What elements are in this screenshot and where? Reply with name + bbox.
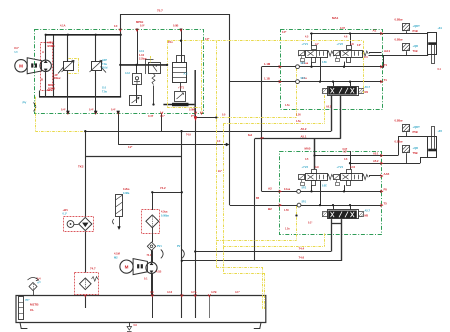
svg-text:74.6: 74.6 [299, 256, 305, 260]
svg-text:A5.1: A5.1 [373, 151, 379, 155]
svg-text:4.1A: 4.1A [60, 24, 66, 28]
svg-text:74.2: 74.2 [160, 186, 166, 190]
svg-text:0.0*: 0.0* [205, 38, 209, 41]
svg-text:B: B [41, 78, 43, 82]
svg-text:M1TB: M1TB [30, 303, 39, 307]
svg-text:1.5u: 1.5u [296, 120, 301, 123]
svg-text:A5.7: A5.7 [365, 85, 371, 89]
svg-text:SP.1: SP.1 [301, 78, 306, 80]
svg-text:A5.7: A5.7 [365, 209, 371, 213]
svg-text:4.7A: 4.7A [191, 290, 197, 294]
svg-text:M5: M5 [365, 214, 369, 218]
svg-text:0.4T: 0.4T [148, 114, 154, 118]
svg-text:0.1*: 0.1* [63, 213, 67, 216]
svg-text:0.3*: 0.3* [357, 45, 361, 47]
svg-text:0.0M: 0.0M [189, 109, 195, 112]
svg-text:P5: P5 [384, 188, 388, 192]
svg-text:+QDT: +QDT [413, 125, 421, 129]
svg-text:T1B: T1B [413, 49, 418, 53]
svg-text:MA5: MA5 [305, 147, 311, 151]
svg-text:0.4*: 0.4* [111, 109, 115, 112]
svg-text:+K1: +K1 [438, 27, 443, 30]
svg-text:4.1M: 4.1M [114, 252, 120, 256]
svg-text:4.10: 4.10 [350, 165, 356, 169]
svg-text:MP1E: MP1E [136, 20, 144, 24]
svg-text:+QDT: +QDT [413, 24, 421, 28]
svg-text:8u2: 8u2 [248, 134, 253, 137]
svg-text:0.1*: 0.1* [47, 89, 51, 92]
svg-text:74.1: 74.1 [147, 254, 152, 257]
svg-text:M2: M2 [114, 256, 118, 260]
svg-text:SP.2: SP.2 [302, 188, 307, 190]
svg-text:+K5: +K5 [438, 130, 443, 133]
svg-text:74.4: 74.4 [299, 247, 305, 251]
svg-text:M: M [19, 64, 23, 69]
svg-text:0.0B: 0.0B [173, 25, 178, 28]
svg-text:T1: T1 [384, 78, 388, 82]
svg-text:P5B: P5B [413, 130, 418, 134]
svg-text:4.7B: 4.7B [211, 290, 217, 294]
svg-text:1.50: 1.50 [284, 209, 289, 212]
svg-text:+YV1: +YV1 [302, 42, 309, 46]
svg-text:SP.1: SP.1 [302, 201, 307, 203]
svg-text:P*: P* [191, 114, 194, 118]
svg-text:PV1: PV1 [157, 245, 162, 248]
svg-text:T5: T5 [384, 201, 388, 205]
svg-text:0.1: 0.1 [144, 278, 148, 281]
svg-text:A.2: A.2 [184, 73, 189, 76]
svg-text:0.0*: 0.0* [140, 25, 144, 28]
svg-text:4.6: 4.6 [150, 290, 154, 294]
svg-text:0.2ba: 0.2ba [123, 188, 130, 191]
svg-text:0.2*: 0.2* [128, 146, 132, 149]
svg-text:+YV2: +YV2 [337, 42, 344, 46]
svg-text:2u*: 2u* [218, 170, 222, 173]
svg-text:A2*: A2* [343, 151, 347, 154]
svg-text:M: M [125, 264, 129, 269]
svg-text:AA5: AA5 [384, 172, 390, 176]
svg-text:4.1*: 4.1* [160, 114, 165, 118]
svg-text:1.5x: 1.5x [285, 228, 290, 231]
svg-text:0.5E: 0.5E [322, 185, 327, 187]
svg-text:0.08a: 0.08a [123, 192, 130, 195]
svg-text:A2P: A2P [102, 59, 107, 62]
svg-text:+YV3: +YV3 [302, 165, 309, 169]
svg-text:T.0a: T.0a [102, 90, 107, 93]
svg-text:+YT1: +YT1 [178, 87, 185, 90]
svg-text:0.5Bar: 0.5Bar [395, 38, 403, 42]
svg-text:0.08ba: 0.08ba [161, 215, 169, 218]
svg-text:0.1*: 0.1* [308, 222, 312, 225]
svg-text:0.5Bar: 0.5Bar [395, 18, 403, 22]
svg-text:4.2ua: 4.2ua [161, 211, 168, 214]
svg-text:4.8: 4.8 [350, 42, 354, 46]
svg-text:0.07: 0.07 [340, 27, 345, 30]
svg-text:A5*: A5* [260, 137, 264, 140]
svg-text:74.7: 74.7 [90, 267, 96, 271]
svg-text:A: A [42, 50, 44, 54]
svg-text:A5.1: A5.1 [301, 134, 307, 138]
svg-text:4.1B: 4.1B [156, 271, 161, 274]
svg-text:B2: B2 [268, 207, 272, 211]
svg-text:P1B: P1B [413, 29, 418, 33]
svg-text:4.11: 4.11 [139, 49, 144, 53]
svg-text:MD1*: MD1* [48, 41, 56, 45]
svg-text:A2: A2 [268, 186, 272, 190]
svg-text:0.4*: 0.4* [89, 109, 93, 112]
svg-text:1.1B: 1.1B [264, 77, 270, 81]
svg-text:M1: M1 [365, 90, 369, 94]
svg-text:+QD: +QD [413, 44, 419, 48]
svg-text:700bar: 700bar [53, 77, 61, 80]
svg-text:0.5Bar: 0.5Bar [395, 119, 403, 123]
svg-text:0.5E: 0.5E [322, 62, 327, 64]
svg-text:+QD: +QD [413, 146, 419, 150]
svg-text:1.5x: 1.5x [285, 104, 290, 107]
svg-text:4.1*: 4.1* [235, 290, 240, 294]
svg-text:T5B: T5B [413, 151, 418, 155]
svg-text:0.4*: 0.4* [61, 109, 65, 112]
svg-text:P.1x: P.1x [168, 41, 173, 44]
svg-text:0.5Bar: 0.5Bar [395, 140, 403, 144]
svg-text:B5M5: B5M5 [48, 44, 56, 48]
svg-text:TK2: TK2 [78, 165, 84, 169]
svg-text:G.0: G.0 [102, 87, 107, 90]
svg-text:2.2bar: 2.2bar [139, 57, 147, 61]
svg-text:PV: PV [23, 101, 27, 105]
svg-text:SP.2: SP.2 [301, 63, 306, 65]
svg-text:U=: U= [15, 50, 19, 54]
svg-text:A1: A1 [373, 29, 377, 33]
svg-text:74.9: 74.9 [186, 134, 191, 137]
svg-text:4.13: 4.13 [167, 290, 173, 294]
svg-text:P1*: P1* [26, 299, 30, 302]
svg-text:0.0*: 0.0* [282, 31, 286, 34]
svg-text:1.1M: 1.1M [264, 62, 271, 66]
svg-text:A5.2: A5.2 [373, 159, 379, 163]
svg-text:B.0d: B.0d [102, 67, 108, 70]
svg-text:4.12: 4.12 [125, 72, 130, 75]
svg-text:MA1: MA1 [332, 16, 339, 20]
svg-text:MD1*: MD1* [48, 83, 56, 87]
svg-text:0.4: 0.4 [364, 56, 368, 59]
svg-text:0.1ua: 0.1ua [284, 188, 291, 191]
svg-text:1.50: 1.50 [296, 114, 301, 117]
svg-text:+W1: +W1 [63, 209, 69, 212]
svg-text:4.9: 4.9 [315, 165, 319, 169]
svg-text:P1: P1 [384, 63, 388, 67]
svg-text:T.0a: T.0a [102, 63, 107, 66]
svg-text:75.7: 75.7 [157, 9, 163, 13]
svg-text:AA1: AA1 [384, 49, 390, 53]
svg-text:1.10: 1.10 [139, 53, 145, 57]
svg-text:+F*: +F* [37, 282, 41, 285]
svg-text:+YV4: +YV4 [337, 165, 344, 169]
svg-text:PV: PV [177, 245, 181, 248]
svg-text:CL: CL [30, 308, 34, 312]
svg-text:0.4: 0.4 [37, 278, 41, 281]
svg-text:A5.2: A5.2 [301, 127, 307, 131]
svg-text:A5.3: A5.3 [326, 106, 332, 109]
svg-text:4.7: 4.7 [315, 42, 319, 46]
